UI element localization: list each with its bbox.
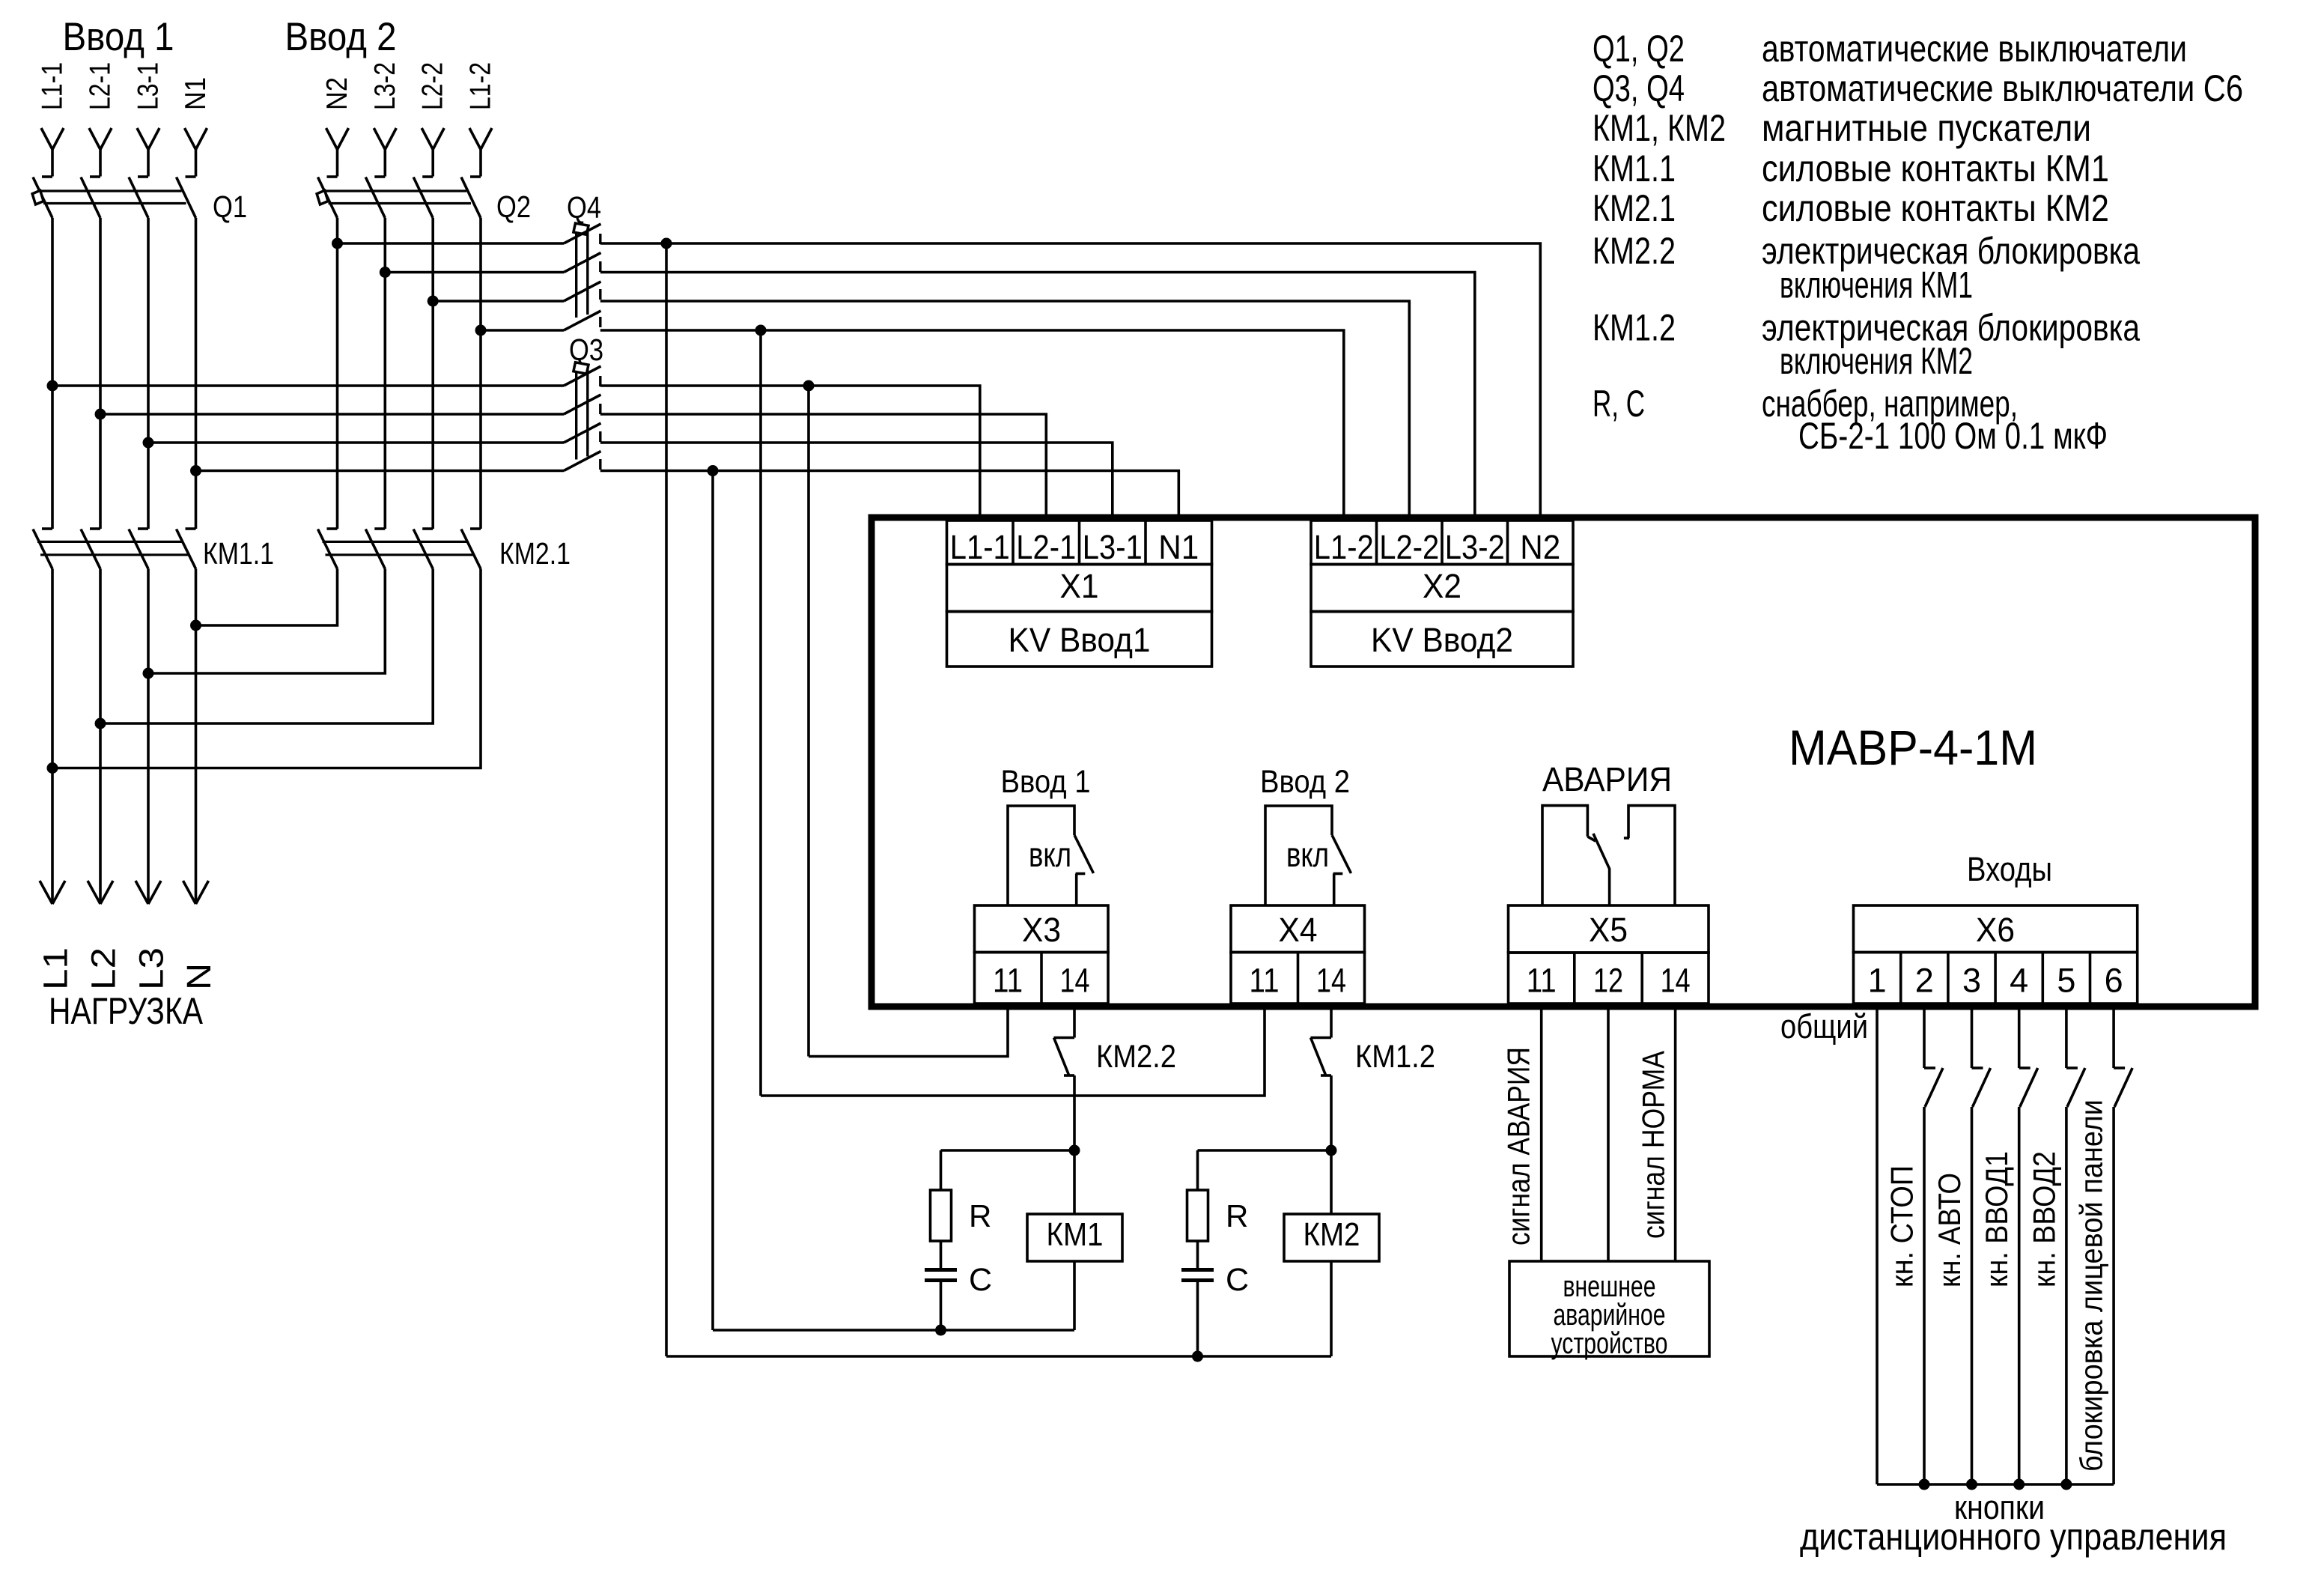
svg-text:МАВР-4-1М: МАВР-4-1М bbox=[1789, 720, 2037, 775]
svg-text:включения КМ2: включения КМ2 bbox=[1780, 340, 1973, 382]
svg-text:КМ1: КМ1 bbox=[1047, 1216, 1104, 1253]
svg-text:КМ1, КМ2: КМ1, КМ2 bbox=[1593, 107, 1726, 149]
svg-text:L2-2: L2-2 bbox=[1379, 528, 1439, 566]
svg-text:X2: X2 bbox=[1423, 567, 1461, 605]
svg-text:блокировка лицевой панели: блокировка лицевой панели bbox=[2074, 1099, 2109, 1472]
wire N1 bus to X1 bbox=[196, 470, 565, 473]
terminal block X1 bbox=[947, 521, 1212, 565]
terminal block X5 bbox=[1509, 905, 1709, 953]
terminal block X3 bbox=[975, 905, 1109, 953]
svg-text:KV Ввод2: KV Ввод2 bbox=[1371, 621, 1513, 659]
svg-text:КМ2.2: КМ2.2 bbox=[1096, 1039, 1176, 1075]
wire X4-14 down bbox=[1330, 1007, 1333, 1038]
circuit breaker Q2 bbox=[318, 177, 338, 219]
svg-text:L2-1: L2-1 bbox=[1016, 528, 1076, 566]
circuit breaker Q1 bbox=[33, 177, 52, 219]
svg-text:11: 11 bbox=[993, 962, 1023, 1000]
wire N2 drop to KM2 rail bbox=[665, 243, 668, 1356]
svg-text:кн. ВВОД1: кн. ВВОД1 bbox=[1979, 1151, 2014, 1287]
svg-text:L3-2: L3-2 bbox=[1445, 528, 1505, 566]
svg-text:силовые контакты КМ1: силовые контакты КМ1 bbox=[1762, 148, 2109, 189]
svg-text:L1-2: L1-2 bbox=[465, 62, 497, 110]
wire X3-11 down bbox=[809, 1007, 1008, 1057]
svg-text:Входы: Входы bbox=[1967, 850, 2052, 888]
wire X3-14 down bbox=[1073, 1007, 1076, 1038]
wire L2-2 bus to X2 bbox=[433, 300, 564, 303]
wire L3-1 column bbox=[147, 218, 150, 529]
terminal block X4 bbox=[1231, 905, 1365, 953]
svg-text:кн. АВТО: кн. АВТО bbox=[1932, 1173, 1967, 1287]
load arrow N bbox=[183, 881, 196, 904]
wire load column 1 bbox=[51, 569, 54, 905]
wire load column 3 bbox=[147, 569, 150, 905]
svg-text:14: 14 bbox=[1661, 962, 1691, 1000]
wire L1-1 column bbox=[51, 218, 54, 529]
junction C2 to N2 rail bbox=[1192, 1351, 1203, 1362]
load arrow L1 bbox=[40, 881, 52, 904]
junction N1 drop bbox=[708, 465, 719, 476]
svg-text:R: R bbox=[969, 1198, 991, 1233]
wire L1-2 bus to X2 bbox=[481, 329, 564, 332]
junction L1-2 drop bbox=[755, 325, 767, 336]
svg-text:X4: X4 bbox=[1279, 911, 1318, 949]
wire L3-2 column bbox=[383, 218, 386, 529]
wire L3-2 bus to X2 bbox=[385, 271, 564, 274]
wire КМ1.2 to KM2 coil bbox=[1330, 1075, 1333, 1150]
wire N1 column bbox=[195, 218, 198, 529]
svg-text:кн. ВВОД2: кн. ВВОД2 bbox=[2026, 1151, 2061, 1287]
wire Q4 dashed link bbox=[599, 234, 601, 332]
junction button rail bbox=[1919, 1479, 1930, 1490]
svg-text:сигнал НОРМА: сигнал НОРМА bbox=[1636, 1051, 1671, 1239]
svg-text:5: 5 bbox=[2057, 962, 2075, 1000]
svg-text:АВАРИЯ: АВАРИЯ bbox=[1542, 760, 1672, 798]
svg-text:КМ2.1: КМ2.1 bbox=[499, 536, 571, 571]
svg-text:Q1, Q2: Q1, Q2 bbox=[1593, 28, 1685, 70]
wire L2-1 bus to X1 bbox=[100, 413, 564, 416]
svg-text:КМ1.2: КМ1.2 bbox=[1593, 307, 1676, 349]
svg-text:3: 3 bbox=[1962, 962, 1981, 1000]
svg-text:11: 11 bbox=[1527, 962, 1557, 1000]
wire X5-12 bbox=[1607, 1007, 1610, 1261]
wire Ввод2 pole 2 join to load bbox=[148, 569, 385, 674]
wire L1-2 column bbox=[479, 218, 482, 529]
svg-text:N1: N1 bbox=[1158, 528, 1199, 566]
svg-text:12: 12 bbox=[1593, 962, 1623, 1000]
button кн. ВВОД1 bbox=[2018, 1007, 2021, 1068]
wire load column 2 bbox=[99, 569, 102, 905]
svg-text:L3-2: L3-2 bbox=[369, 62, 401, 110]
svg-text:X3: X3 bbox=[1022, 911, 1061, 949]
svg-text:магнитные пускатели: магнитные пускатели bbox=[1762, 107, 2091, 149]
wire Ввод2 pole 1 join to load bbox=[196, 569, 338, 626]
wire to R2 branch bbox=[1198, 1149, 1332, 1152]
wire L2-2 column bbox=[431, 218, 434, 529]
svg-text:L1-2: L1-2 bbox=[1314, 528, 1374, 566]
load arrow L2 bbox=[88, 881, 100, 904]
svg-text:КМ1.1: КМ1.1 bbox=[203, 536, 274, 571]
wire buttons common rail bbox=[1877, 1483, 2114, 1486]
contact КМ2.2 bbox=[1054, 1037, 1075, 1040]
svg-text:X5: X5 bbox=[1589, 911, 1628, 949]
node KV Ввод1 bbox=[947, 612, 1212, 667]
svg-text:L3-1: L3-1 bbox=[133, 62, 165, 110]
svg-text:Q4: Q4 bbox=[567, 190, 601, 225]
svg-text:кн. СТОП: кн. СТОП bbox=[1885, 1165, 1920, 1287]
wire L3-1 bus to X1 bbox=[148, 441, 564, 444]
wire to R1 branch bbox=[941, 1149, 1075, 1152]
svg-text:КМ2.2: КМ2.2 bbox=[1593, 230, 1676, 272]
junction N2 drop bbox=[661, 238, 672, 249]
wire N2 column bbox=[336, 218, 339, 529]
load arrow L3 bbox=[136, 881, 148, 904]
svg-text:силовые контакты КМ2: силовые контакты КМ2 bbox=[1762, 187, 2109, 229]
svg-text:Q1: Q1 bbox=[213, 189, 247, 224]
junction L2-2 to Q4 bbox=[428, 296, 439, 307]
svg-text:дистанционного управления: дистанционного управления bbox=[1800, 1516, 2227, 1558]
junction button rail bbox=[1966, 1479, 1977, 1490]
resistor R2 bbox=[1196, 1150, 1199, 1190]
contactor coil КМ1 bbox=[1073, 1150, 1076, 1214]
wire N2 bus to X2 bbox=[338, 242, 565, 245]
capacitor C2 bbox=[1196, 1241, 1199, 1269]
svg-text:СБ-2-1 100 Ом 0.1 мкФ: СБ-2-1 100 Ом 0.1 мкФ bbox=[1798, 415, 2108, 457]
svg-text:вкл: вкл bbox=[1286, 835, 1329, 874]
svg-text:L2: L2 bbox=[85, 947, 123, 990]
wire L1-1 bus to X1 bbox=[52, 384, 564, 387]
svg-text:R, C: R, C bbox=[1593, 383, 1645, 425]
svg-text:Q3, Q4: Q3, Q4 bbox=[1593, 67, 1685, 109]
svg-text:L1-1: L1-1 bbox=[37, 62, 69, 110]
svg-text:КМ2.1: КМ2.1 bbox=[1593, 187, 1676, 229]
button блокировка лицевой панели bbox=[2112, 1007, 2115, 1068]
wire Ввод2 pole 4 join to load bbox=[52, 569, 481, 768]
svg-text:C: C bbox=[1226, 1262, 1249, 1298]
wire L1-1 drop to X3 rail bbox=[807, 386, 810, 1057]
svg-text:14: 14 bbox=[1316, 962, 1346, 1000]
contact КМ1.2 bbox=[1311, 1037, 1332, 1040]
svg-text:C: C bbox=[969, 1262, 992, 1298]
svg-text:L2-2: L2-2 bbox=[417, 62, 449, 110]
contactor contacts КМ2.1 bbox=[327, 527, 338, 530]
wire X5-14 сигнал НОРМА bbox=[1674, 1007, 1677, 1261]
svg-text:1: 1 bbox=[1868, 962, 1887, 1000]
svg-text:КМ1.1: КМ1.1 bbox=[1593, 148, 1676, 189]
svg-text:L3-1: L3-1 bbox=[1083, 528, 1143, 566]
svg-text:Q2: Q2 bbox=[496, 189, 531, 224]
svg-text:автоматические выключатели С6: автоматические выключатели С6 bbox=[1762, 67, 2243, 109]
external alarm device box bbox=[1509, 1261, 1709, 1356]
junction KM1 branch bbox=[1069, 1145, 1080, 1156]
wire Q3 dashed link bbox=[599, 376, 601, 474]
junction L3-2 to Q4 bbox=[380, 267, 391, 278]
wire X6-1 общий bbox=[1876, 1007, 1879, 1484]
wire L2-1 column bbox=[99, 218, 102, 529]
wire КМ2.2 to KM1 coil bbox=[1073, 1075, 1076, 1150]
wire N1 drop to KM1 rail bbox=[711, 471, 714, 1331]
terminal block X2 bbox=[1311, 521, 1573, 565]
junction button rail bbox=[2060, 1479, 2072, 1490]
svg-text:Ввод 2: Ввод 2 bbox=[285, 15, 397, 59]
svg-text:2: 2 bbox=[1915, 962, 1934, 1000]
wire Ввод2 pole 3 join to load bbox=[100, 569, 433, 724]
svg-text:X1: X1 bbox=[1060, 567, 1099, 605]
svg-text:N1: N1 bbox=[180, 77, 212, 110]
svg-text:НАГРУЗКА: НАГРУЗКА bbox=[49, 990, 204, 1032]
wire load column 4 bbox=[195, 569, 198, 905]
svg-text:14: 14 bbox=[1060, 962, 1090, 1000]
junction L1-1 to Q3 bbox=[47, 380, 58, 392]
svg-text:Ввод 1: Ввод 1 bbox=[63, 15, 174, 59]
svg-text:автоматические выключатели: автоматические выключатели bbox=[1762, 28, 2187, 70]
svg-text:R: R bbox=[1226, 1198, 1248, 1233]
junction button rail bbox=[2013, 1479, 2025, 1490]
svg-text:КМ2: КМ2 bbox=[1304, 1216, 1360, 1253]
junction L1-1 drop bbox=[803, 380, 815, 392]
wire N1 rail bbox=[713, 1329, 1074, 1332]
svg-text:L3: L3 bbox=[133, 947, 171, 990]
svg-text:4: 4 bbox=[2010, 962, 2028, 1000]
button кн. АВТО bbox=[1971, 1007, 1974, 1068]
svg-text:Ввод 1: Ввод 1 bbox=[1001, 764, 1091, 800]
junction N1 to Q3 bbox=[190, 465, 201, 476]
svg-text:L1-1: L1-1 bbox=[950, 528, 1010, 566]
junction KM2 branch bbox=[1326, 1145, 1337, 1156]
device box МАВР-4-1М bbox=[871, 518, 2255, 1007]
wire L1-2 drop to X4 rail bbox=[759, 330, 762, 1096]
svg-text:включения КМ1: включения КМ1 bbox=[1780, 264, 1973, 306]
junction C1 to N1 rail bbox=[935, 1325, 946, 1336]
svg-text:N2: N2 bbox=[321, 77, 353, 110]
junction N2 to Q4 bbox=[332, 238, 343, 249]
svg-text:сигнал АВАРИЯ: сигнал АВАРИЯ bbox=[1501, 1047, 1536, 1245]
svg-text:Ввод 2: Ввод 2 bbox=[1260, 764, 1350, 800]
svg-text:11: 11 bbox=[1250, 962, 1280, 1000]
wire X5-11 сигнал АВАРИЯ bbox=[1540, 1007, 1543, 1261]
svg-text:KV Ввод1: KV Ввод1 bbox=[1009, 621, 1151, 659]
contactor coil КМ2 bbox=[1330, 1150, 1333, 1214]
capacitor C1 bbox=[940, 1241, 943, 1269]
wire N2 rail bbox=[666, 1355, 1331, 1358]
svg-text:N: N bbox=[180, 963, 218, 990]
junction L3-1 to Q3 bbox=[143, 437, 154, 449]
svg-text:L1: L1 bbox=[37, 947, 75, 990]
button кн. ВВОД2 bbox=[2065, 1007, 2068, 1068]
svg-text:6: 6 bbox=[2105, 962, 2123, 1000]
junction L1-2 to Q4 bbox=[475, 325, 487, 336]
wire X4-11 down bbox=[761, 1007, 1265, 1096]
resistor R1 bbox=[940, 1150, 943, 1190]
svg-text:L2-1: L2-1 bbox=[85, 62, 117, 110]
button кн. СТОП bbox=[1923, 1007, 1926, 1068]
svg-text:вкл: вкл bbox=[1029, 835, 1071, 874]
svg-text:КМ1.2: КМ1.2 bbox=[1355, 1039, 1435, 1075]
svg-text:устройство: устройство bbox=[1551, 1327, 1668, 1360]
svg-text:X6: X6 bbox=[1976, 911, 2015, 949]
junction L2-1 to Q3 bbox=[95, 409, 106, 420]
svg-text:N2: N2 bbox=[1520, 528, 1560, 566]
svg-text:общий: общий bbox=[1780, 1007, 1868, 1046]
node KV Ввод2 bbox=[1311, 612, 1573, 667]
contactor contacts КМ1.1 bbox=[42, 527, 52, 530]
